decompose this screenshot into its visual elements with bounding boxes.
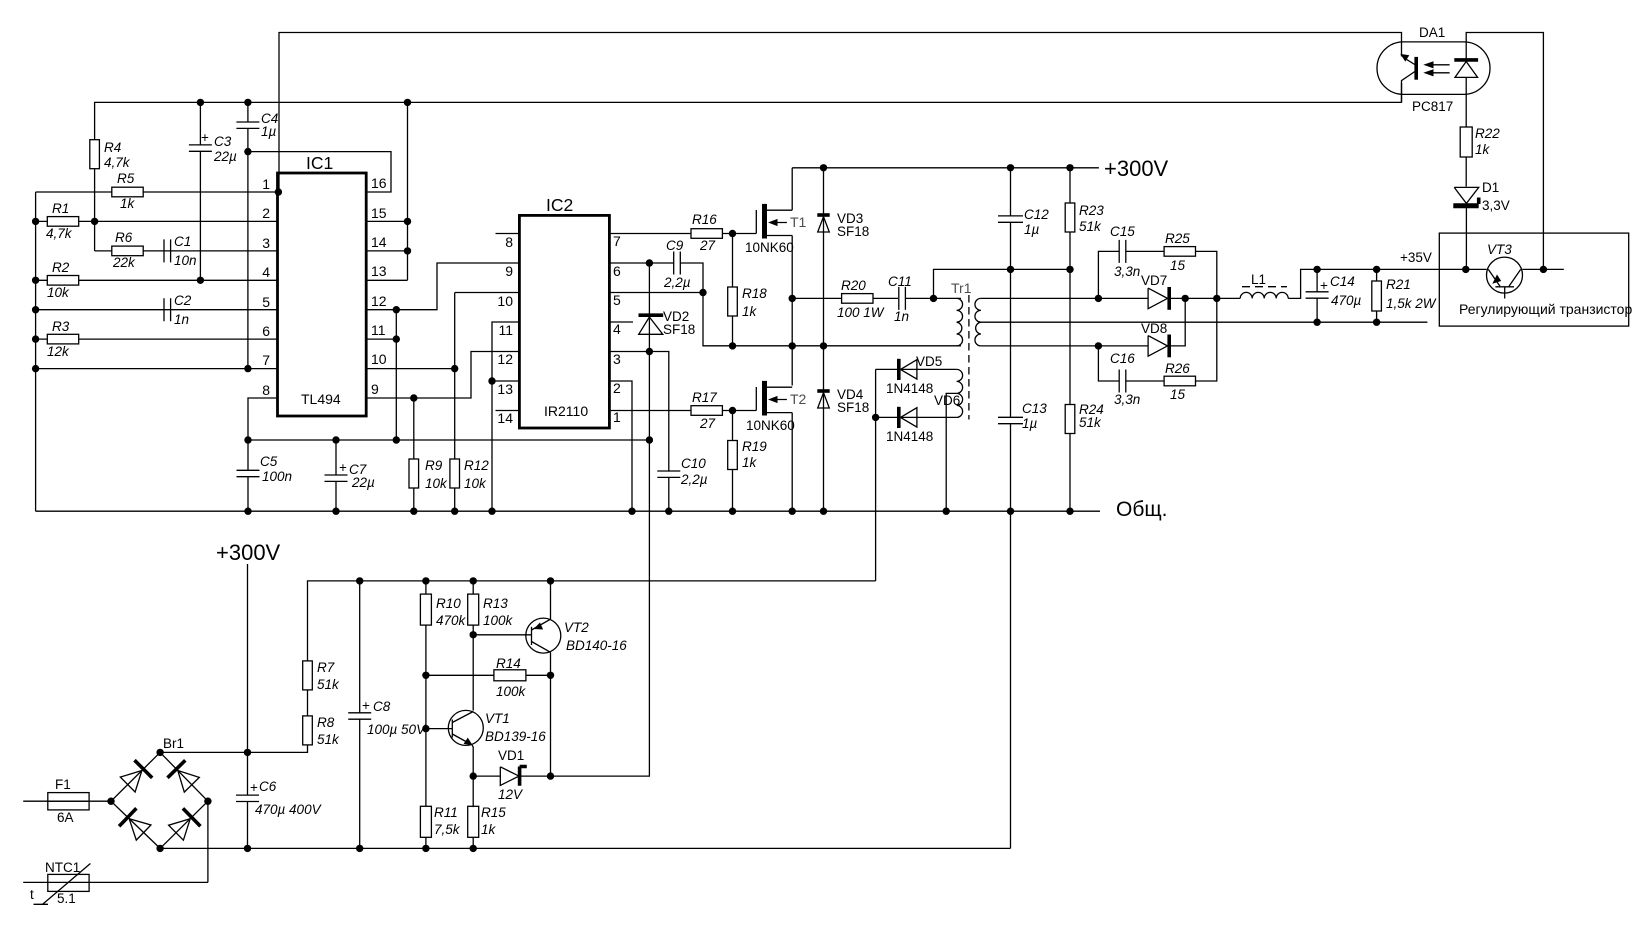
svg-text:C8: C8: [373, 699, 391, 714]
node C3 top on Vref rail: [197, 99, 204, 106]
svg-text:12: 12: [371, 293, 387, 309]
svg-text:+: +: [201, 130, 209, 145]
node C8 top: [356, 577, 363, 584]
svg-text:R14: R14: [496, 656, 521, 671]
optocoupler light arrows: [1423, 61, 1449, 76]
svg-text:10: 10: [497, 293, 513, 309]
svg-text:100µ 50V: 100µ 50V: [367, 722, 427, 737]
node R19 bottom on ground rail: [729, 508, 736, 515]
node pin7 row on ground bus: [32, 365, 39, 372]
transformer Tr1 secondary winding: [975, 298, 981, 346]
svg-text:R20: R20: [841, 278, 866, 293]
transistor VT2 BD140-16: [526, 618, 627, 653]
svg-text:D1: D1: [1482, 180, 1499, 195]
svg-text:R17: R17: [692, 390, 717, 405]
resistor R3: [47, 319, 79, 359]
node C7 top: [332, 436, 339, 443]
wire IC1 pin 4 row: [36, 279, 278, 281]
svg-text:1N4148: 1N4148: [886, 381, 933, 396]
resistor R22: [1460, 126, 1500, 187]
svg-text:C12: C12: [1024, 207, 1049, 222]
node R21 bottom: [1373, 319, 1380, 326]
resistor R19: [728, 411, 768, 512]
svg-text:15: 15: [1170, 387, 1186, 402]
wire primary bottom return: [703, 345, 957, 347]
wire IC2 pin 1 to R17: [609, 410, 691, 412]
svg-text:+300V: +300V: [1104, 156, 1169, 181]
node R13 top: [470, 577, 477, 584]
wire pins 15/14/13 tie vertical x=407.5: [366, 102, 407, 280]
svg-text:6: 6: [262, 323, 270, 339]
wire IC1 pin11 stub: [366, 338, 396, 340]
capacitor C14 electrolytic: [1306, 269, 1362, 322]
node T1 source to R20 line: [789, 295, 796, 302]
svg-text:SF18: SF18: [837, 400, 869, 415]
resistor R21: [1372, 269, 1437, 322]
svg-text:1µ: 1µ: [1024, 222, 1040, 237]
svg-text:+35V: +35V: [1400, 250, 1432, 265]
wire IC2 pins 11/13 to ground rail: [492, 322, 519, 511]
capacitor C13: [998, 269, 1047, 511]
svg-text:VD1: VD1: [498, 748, 524, 763]
svg-text:13: 13: [371, 263, 387, 279]
node pin11/13 chain on ground rail: [488, 508, 495, 515]
resistor R17: [691, 390, 722, 431]
node R15 bottom: [470, 845, 477, 852]
wire IC1 pin10 to IC2 pin10 and R12: [366, 293, 519, 460]
wire secondary center tap line: [981, 321, 1428, 323]
node pin9 / R9: [410, 394, 417, 401]
svg-text:5: 5: [613, 292, 621, 308]
svg-text:3: 3: [613, 351, 621, 367]
svg-text:51k: 51k: [1079, 219, 1102, 234]
svg-text:12: 12: [497, 351, 513, 367]
svg-text:14: 14: [371, 234, 387, 250]
svg-text:R11: R11: [434, 805, 458, 820]
svg-text:L1: L1: [1251, 272, 1266, 287]
svg-text:14: 14: [497, 410, 513, 426]
wire R8 to R7: [307, 690, 309, 716]
capacitor C7 electrolytic: [325, 440, 376, 511]
IC box IC1 TL494: [278, 153, 367, 416]
svg-text:8: 8: [505, 234, 513, 250]
node pins11-12 vertical on y440: [393, 436, 400, 443]
svg-text:PC817: PC817: [1412, 99, 1453, 114]
svg-text:1: 1: [262, 176, 270, 192]
thermistor NTC1: [23, 860, 208, 906]
wire T2 source to ground rail: [791, 413, 793, 512]
node aux tap on ground rail: [943, 508, 950, 515]
node x650 vertical on y440: [646, 436, 653, 443]
resistor R18: [728, 234, 768, 346]
svg-text:7,5k: 7,5k: [434, 822, 461, 837]
diode VD6 1N4148: [876, 393, 961, 444]
svg-text:C16: C16: [1110, 351, 1135, 366]
svg-text:+: +: [339, 460, 347, 475]
diode VD4 SF18: [817, 346, 869, 511]
node bridge minus: [156, 845, 163, 852]
svg-text:R15: R15: [481, 805, 506, 820]
svg-text:470µ 400V: 470µ 400V: [255, 802, 323, 817]
svg-text:R18: R18: [742, 286, 767, 301]
svg-text:C14: C14: [1330, 274, 1355, 289]
svg-text:1k: 1k: [120, 196, 136, 211]
node +300V on bridge plus line: [244, 749, 251, 756]
svg-text:C15: C15: [1110, 224, 1135, 239]
svg-text:1k: 1k: [481, 822, 497, 837]
svg-text:Br1: Br1: [163, 736, 184, 751]
svg-text:VD7: VD7: [1141, 273, 1167, 288]
node C7 bottom on ground rail: [332, 508, 339, 515]
svg-text:22k: 22k: [112, 255, 136, 270]
node VD1 cathode node: [547, 772, 554, 779]
wire IC2 pin 2 to ground rail: [609, 381, 632, 511]
transformer Tr1 auxiliary winding: [957, 369, 963, 417]
node R14 right on VT2 collector: [547, 672, 554, 679]
wire C11 to transformer primary top: [905, 297, 961, 299]
wire R4 bottom to R6 corner: [94, 169, 96, 251]
wire IC2 pin 8 stub (open): [496, 233, 520, 235]
wire R11 bottom to minus rail: [425, 837, 427, 848]
svg-text:DA1: DA1: [1419, 25, 1445, 40]
svg-text:C11: C11: [888, 274, 912, 289]
node R3 left on ground bus: [32, 335, 39, 342]
resistor R13: [468, 581, 514, 628]
svg-text:VT3: VT3: [1487, 242, 1512, 257]
svg-text:R1: R1: [52, 201, 69, 216]
svg-text:C10: C10: [681, 456, 706, 471]
svg-text:TL494: TL494: [301, 391, 341, 407]
svg-text:IC1: IC1: [306, 153, 333, 173]
svg-text:R8: R8: [317, 715, 335, 730]
transformer Tr1 primary winding: [957, 298, 963, 346]
IC1 pin numbers left: [262, 176, 270, 398]
transistor T1 MOSFET 10NK60: [745, 204, 807, 255]
node pin2 chain on ground rail: [628, 508, 635, 515]
svg-text:F1: F1: [55, 777, 71, 792]
svg-text:15: 15: [1170, 258, 1186, 273]
wire 12V supply to IC2 Vcc vertical x=650: [551, 352, 650, 777]
svg-text:4,7k: 4,7k: [104, 155, 131, 170]
wire bridge plus line to R8: [160, 745, 307, 752]
node T2 gate / R19 top: [729, 407, 736, 414]
wire IC1 pin 1 row: [36, 191, 278, 193]
wire R7 top to 12V supply line: [308, 581, 876, 661]
svg-text:8: 8: [262, 382, 270, 398]
svg-text:R4: R4: [104, 140, 121, 155]
node x407 on Vref rail: [404, 99, 411, 106]
node pin12: [393, 306, 400, 313]
wire IC2 pin 14 stub (open): [496, 410, 520, 412]
svg-text:R19: R19: [742, 439, 767, 454]
wire IC2 pin 4 stub (open): [609, 321, 633, 323]
node C3 bottom on pin 4 row: [197, 277, 204, 284]
node C2 row on ground bus: [32, 306, 39, 313]
svg-text:1: 1: [613, 409, 621, 425]
node pin6 / VD2 top: [646, 259, 653, 266]
capacitor C11: [888, 274, 912, 324]
node T2 source on ground rail: [789, 508, 796, 515]
IC1 pin numbers right: [371, 175, 387, 397]
wire R10 bottom to R11: [425, 625, 427, 807]
resistor R9: [409, 398, 448, 511]
wire VD5/VD6 cathodes to 12V supply line: [875, 369, 877, 581]
wire mains minus rail: [160, 847, 1010, 849]
wire IC1 pin 16 loop: [248, 152, 391, 192]
diode VD8: [1141, 321, 1169, 357]
node C12 on +300V rail: [1007, 164, 1014, 171]
node C6 bottom: [244, 845, 251, 852]
node pin11: [393, 335, 400, 342]
svg-text:1n: 1n: [174, 312, 189, 327]
wire R17 to T2 gate: [722, 410, 756, 412]
wire IC1 pin 2 row: [36, 220, 278, 222]
svg-text:27: 27: [699, 416, 716, 431]
svg-text:12V: 12V: [498, 787, 524, 802]
transformer Tr1 core: [968, 295, 970, 420]
wire +300V rail: [792, 167, 1099, 169]
svg-text:1k: 1k: [742, 455, 758, 470]
svg-text:100k: 100k: [483, 613, 514, 628]
svg-text:R10: R10: [436, 596, 461, 611]
svg-text:10NK60: 10NK60: [745, 240, 794, 255]
fuse F1 6A: [23, 777, 111, 825]
svg-text:C13: C13: [1022, 401, 1047, 416]
svg-text:11: 11: [498, 322, 513, 338]
svg-text:15: 15: [371, 205, 387, 221]
node C13 bottom on ground rail: [1007, 508, 1014, 515]
node bridge plus: [156, 749, 163, 756]
node C5 bottom on ground rail: [244, 508, 251, 515]
node R18 bottom on Vs line: [729, 342, 736, 349]
wire VD8 cathode up to output node: [1169, 298, 1185, 346]
svg-text:R5: R5: [117, 171, 135, 186]
capacitor C12: [998, 168, 1049, 270]
svg-text:3,3n: 3,3n: [1114, 392, 1140, 407]
diode VD5 1N4148: [876, 354, 957, 396]
wire R13 bottom to VT2 base tap and VT1 collector: [472, 625, 474, 711]
zener diode VD1 12V: [473, 748, 550, 802]
wire secondary top to VD7: [981, 297, 1148, 299]
node R2 left on ground bus: [32, 277, 39, 284]
svg-text:T2: T2: [790, 391, 807, 407]
diode VD2 SF18: [639, 263, 696, 352]
wire IC1 pin 7 row: [36, 368, 278, 370]
wire left ground bus x=35.6: [35, 192, 37, 511]
svg-text:10NK60: 10NK60: [746, 418, 795, 433]
svg-text:SF18: SF18: [663, 322, 695, 337]
wire feedback from VT3 collector up to optocoupler LED: [1466, 33, 1543, 270]
svg-text:470k: 470k: [436, 613, 467, 628]
node bridge AC left: [107, 798, 114, 805]
wire IC1 pin12 to IC2 pin9: [366, 263, 519, 310]
svg-text:1n: 1n: [894, 309, 909, 324]
wire T1 source / T2 drain vertical: [791, 236, 793, 386]
node C14 top: [1313, 266, 1320, 273]
svg-text:6: 6: [613, 263, 621, 279]
svg-text:1N4148: 1N4148: [886, 429, 933, 444]
node C5 top: [244, 436, 251, 443]
svg-text:11: 11: [371, 322, 386, 338]
svg-text:R16: R16: [692, 212, 717, 227]
svg-text:R13: R13: [483, 596, 508, 611]
wire half-bridge output to R20: [792, 297, 842, 299]
capacitor C8 electrolytic: [348, 581, 427, 849]
resistor R1: [46, 201, 79, 241]
svg-text:100 1W: 100 1W: [837, 305, 885, 320]
wire IC2 pin 5 stub to Vs vertical: [609, 292, 703, 294]
svg-text:3: 3: [262, 235, 270, 251]
node VT2 emitter top: [547, 577, 554, 584]
node R10 top: [422, 577, 429, 584]
resistor R2: [47, 260, 79, 300]
diode VD7: [1141, 273, 1169, 310]
wire IC1 pin 3 row (R6 to C1 to pin3): [95, 250, 278, 252]
wire NTC1 to bridge AC right node: [207, 801, 209, 882]
svg-text:7: 7: [613, 233, 621, 249]
node VT2 base tap: [470, 631, 477, 638]
wire aux winding center tap to ground rail: [946, 393, 956, 511]
resistor R12: [450, 458, 489, 511]
node bridge AC right: [204, 798, 211, 805]
node on pin 7 row at x=248: [244, 365, 251, 372]
wire primary top to C12/C13 midpoint: [934, 269, 1071, 298]
svg-text:C3: C3: [214, 134, 232, 149]
svg-text:R2: R2: [52, 260, 70, 275]
wire VD7 cathode to L1: [1169, 297, 1240, 299]
svg-text:1k: 1k: [742, 304, 758, 319]
node VD6 cathode junction: [872, 414, 879, 421]
node half-bridge midpoint on Vs line: [789, 342, 796, 349]
svg-text:10k: 10k: [464, 476, 487, 491]
wire R20 to C11: [873, 297, 898, 299]
svg-text:R9: R9: [425, 458, 443, 473]
IC2 pin numbers right: [613, 233, 621, 425]
transistor VT1 BD139-16: [426, 710, 546, 745]
svg-text:VD8: VD8: [1141, 321, 1167, 336]
capacitor C2: [164, 293, 192, 327]
node C12/C13 midpoint: [1007, 266, 1014, 273]
node pin13 stub junction: [488, 377, 495, 384]
svg-text:+: +: [362, 698, 370, 713]
svg-text:1µ: 1µ: [1022, 416, 1038, 431]
snubber C16 R26 across VD8: [1098, 298, 1216, 407]
node R11 bottom: [422, 845, 429, 852]
box VT3 regulating transistor: [1439, 233, 1632, 326]
zener diode D1 3.3V: [1453, 180, 1509, 269]
node R24 bottom on ground rail: [1066, 508, 1073, 515]
capacitor C6 electrolytic 470u 400V: [236, 752, 323, 848]
svg-text:2: 2: [613, 380, 621, 396]
transistor VT3: [1487, 242, 1523, 299]
svg-text:VT1: VT1: [485, 711, 510, 726]
svg-text:NTC1: NTC1: [45, 860, 80, 875]
svg-text:10: 10: [371, 351, 387, 367]
node R9 bottom on ground rail: [410, 508, 417, 515]
wire ground rail down to mains minus rail: [1010, 511, 1012, 848]
wire VT2 base: [473, 634, 531, 636]
resistor R11: [420, 805, 460, 837]
svg-text:22µ: 22µ: [213, 149, 237, 164]
svg-text:3,3n: 3,3n: [1114, 264, 1140, 279]
capacitor C1: [164, 234, 197, 268]
node pin15: [404, 218, 411, 225]
node C4 top on Vref rail: [244, 99, 251, 106]
node VD3 on +300V rail: [820, 164, 827, 171]
svg-text:R22: R22: [1475, 126, 1500, 141]
node pin10 junction: [451, 365, 458, 372]
svg-text:1,5k 2W: 1,5k 2W: [1386, 296, 1437, 311]
svg-text:R26: R26: [1165, 361, 1190, 376]
svg-text:VT2: VT2: [564, 620, 589, 635]
wire L1 to +35V line: [1288, 269, 1564, 298]
node C10 bottom on ground rail: [665, 508, 672, 515]
svg-text:1µ: 1µ: [261, 124, 277, 139]
svg-text:13: 13: [497, 381, 513, 397]
node VD1 anode node: [470, 772, 477, 779]
svg-text:R23: R23: [1079, 203, 1104, 218]
svg-text:100n: 100n: [262, 469, 292, 484]
node R4/R1 junction: [91, 218, 98, 225]
wire secondary bottom to VD8: [981, 345, 1148, 347]
IC2 pin numbers left: [497, 234, 513, 426]
bridge rectifier Br1: [111, 736, 208, 848]
svg-text:BD139-16: BD139-16: [485, 729, 546, 744]
svg-text:t: t: [30, 887, 34, 902]
node feedback tap: [1540, 266, 1547, 273]
svg-text:9: 9: [505, 263, 513, 279]
wire VT2 emitter up to 12V line: [550, 581, 552, 619]
wire IC2 pin 6 to C9: [609, 262, 673, 264]
svg-text:51k: 51k: [317, 677, 340, 692]
wire IC2 pin 7 to R16: [609, 233, 691, 235]
resistor R15: [468, 805, 507, 837]
wire C4 bottom down to IC1 pin 7 row: [247, 152, 249, 369]
svg-text:IR2110: IR2110: [544, 403, 588, 419]
svg-text:16: 16: [371, 175, 387, 191]
wire IC1 pin 5 row: [36, 309, 278, 311]
svg-text:BD140-16: BD140-16: [566, 638, 627, 653]
svg-text:T1: T1: [790, 214, 807, 230]
resistor R16: [691, 212, 722, 253]
svg-text:VD6: VD6: [934, 393, 960, 408]
resistor R4: [90, 140, 131, 170]
wire R16 to T1 gate: [722, 233, 756, 235]
svg-text:51k: 51k: [1079, 415, 1102, 430]
svg-text:R6: R6: [115, 230, 133, 245]
resistor R23: [1065, 168, 1104, 270]
node R21 top: [1373, 266, 1380, 273]
resistor R5: [112, 171, 143, 211]
node VT1 base tap: [422, 725, 429, 732]
svg-text:2,2µ: 2,2µ: [663, 275, 691, 290]
svg-text:2: 2: [262, 205, 270, 221]
svg-text:R21: R21: [1386, 277, 1411, 292]
transistor T2 MOSFET 10NK60: [746, 381, 807, 433]
svg-text:4,7k: 4,7k: [46, 226, 73, 241]
wire Vref rail y102 from R4 to optocoupler collector: [95, 83, 1402, 140]
resistor R14: [426, 656, 551, 699]
svg-text:+300V: +300V: [216, 540, 281, 565]
optocoupler phototransistor: [1400, 54, 1416, 103]
resistor R10: [420, 581, 466, 628]
resistor R20: [837, 278, 885, 320]
svg-text:6A: 6A: [57, 810, 74, 825]
svg-text:10k: 10k: [425, 476, 448, 491]
inductor L1: [1240, 272, 1288, 298]
svg-text:5.1: 5.1: [57, 891, 76, 906]
wire IC2 pin 3 to C10: [609, 352, 668, 472]
